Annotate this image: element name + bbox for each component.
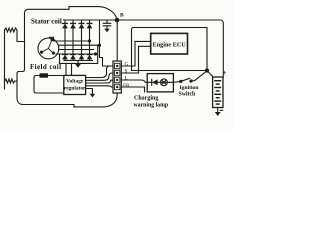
svg-text:Switch: Switch <box>179 92 197 98</box>
svg-text:Voltage: Voltage <box>66 79 84 85</box>
svg-text:S: S <box>125 69 128 75</box>
svg-text:Engine ECU: Engine ECU <box>153 41 187 48</box>
svg-text:FR: FR <box>123 83 130 89</box>
svg-text:Charging: Charging <box>134 96 158 102</box>
svg-text:Field coil: Field coil <box>30 63 61 71</box>
svg-text:G: G <box>125 62 129 68</box>
svg-text:B: B <box>120 12 124 18</box>
svg-text:Stator coil: Stator coil <box>31 18 62 26</box>
svg-text:Ignition: Ignition <box>180 85 200 91</box>
svg-text:warning lamp: warning lamp <box>134 103 169 109</box>
svg-text:+: + <box>222 69 226 77</box>
svg-text:L: L <box>125 76 128 82</box>
svg-text:regulator: regulator <box>64 85 86 91</box>
